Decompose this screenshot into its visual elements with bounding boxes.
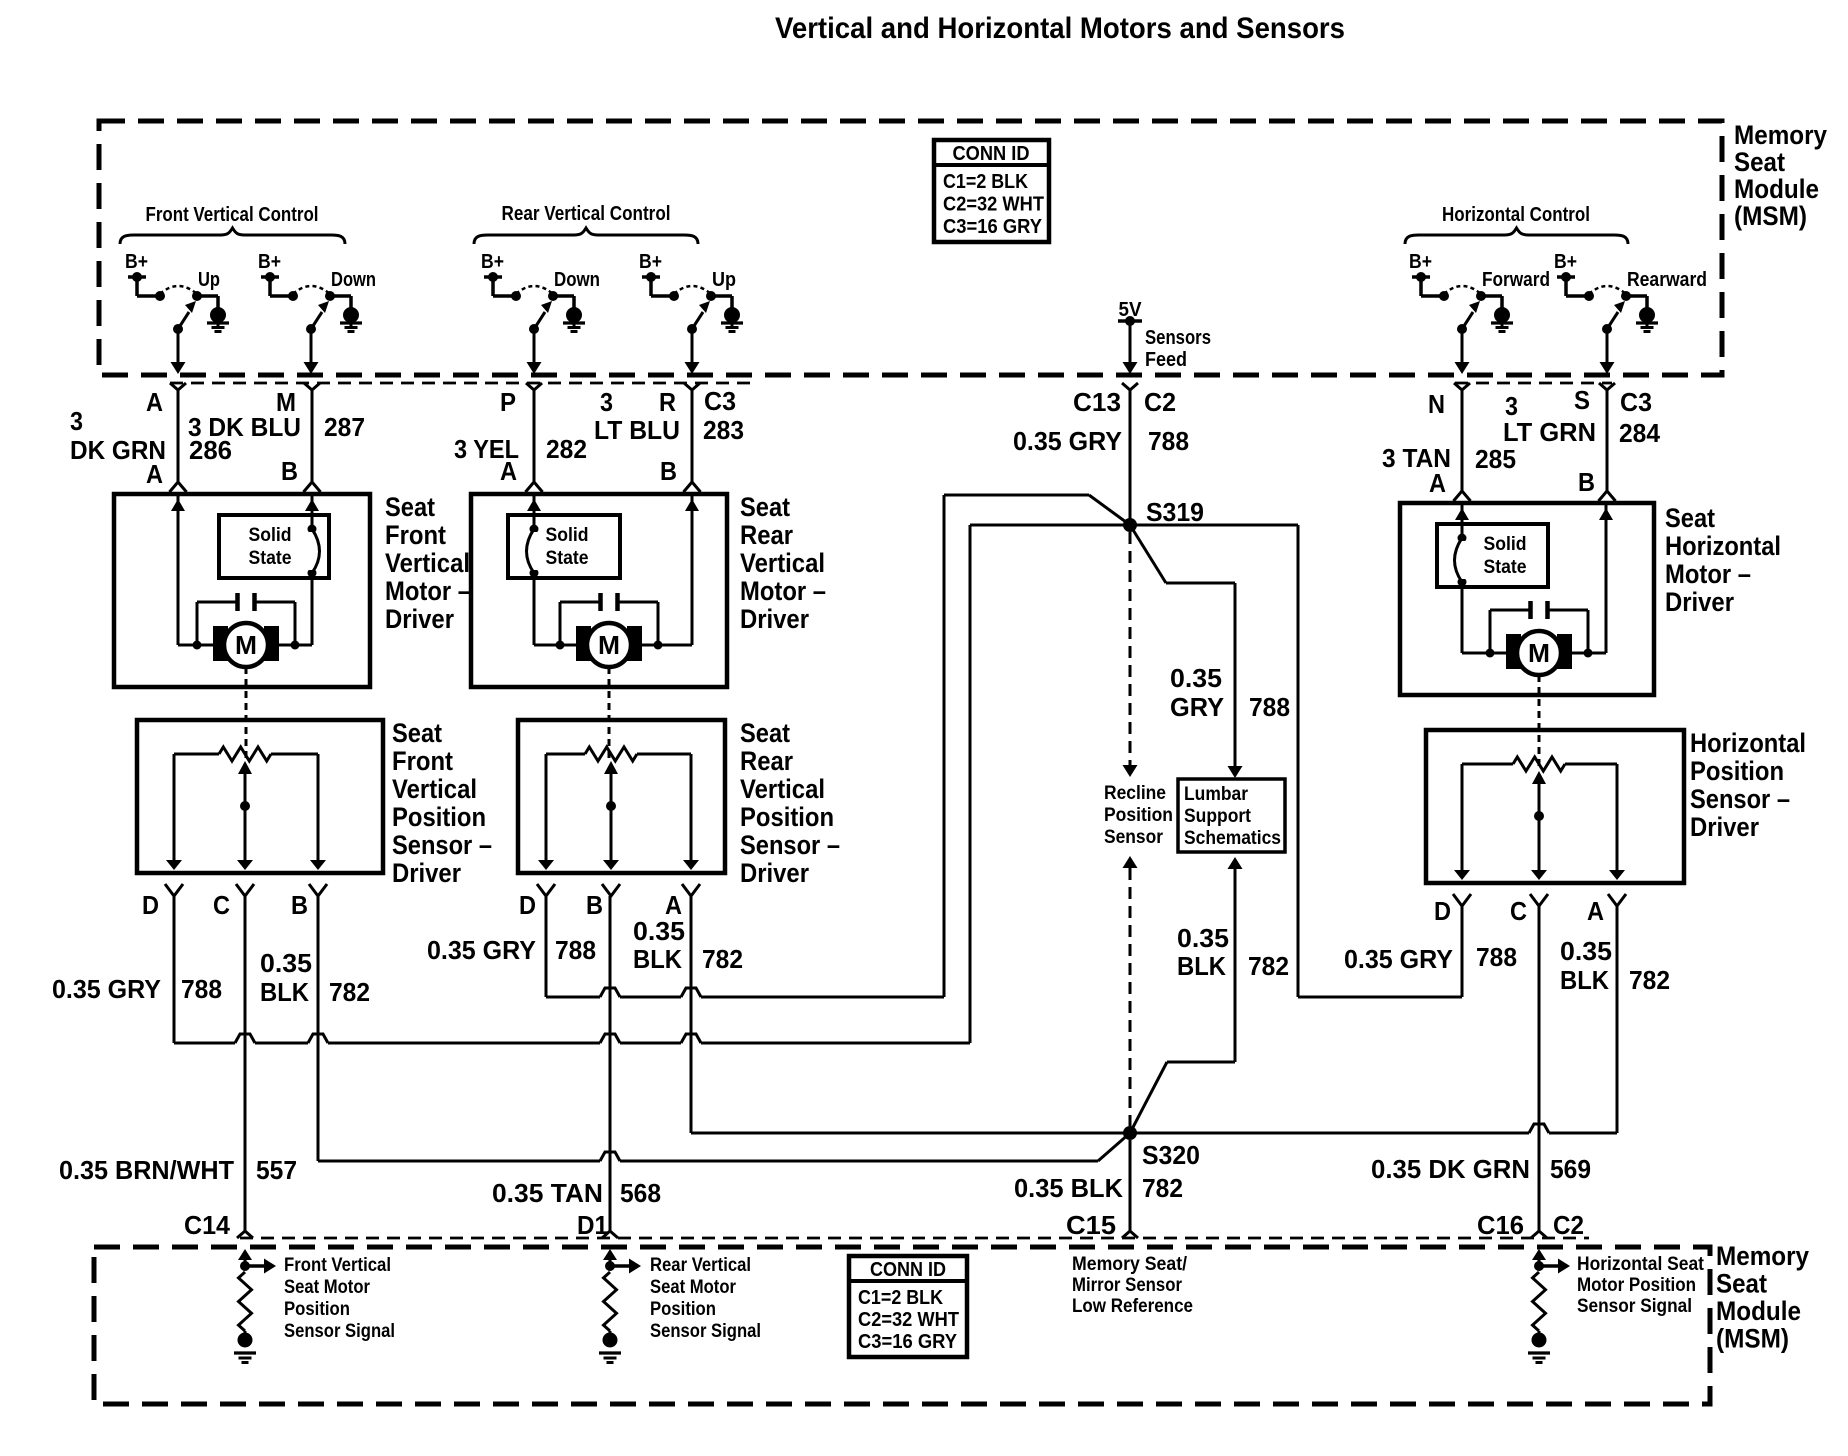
svg-text:286: 286: [189, 435, 232, 465]
svg-text:Driver: Driver: [740, 858, 809, 888]
svg-text:CONN ID: CONN ID: [870, 1259, 946, 1281]
svg-text:782: 782: [329, 977, 370, 1007]
svg-text:Position: Position: [284, 1299, 350, 1320]
svg-text:0.35 GRY: 0.35 GRY: [52, 974, 161, 1004]
svg-text:B+: B+: [481, 251, 504, 273]
svg-text:Front: Front: [392, 746, 453, 776]
svg-text:State: State: [249, 548, 292, 569]
svg-text:Sensor: Sensor: [1104, 827, 1164, 848]
svg-text:Low Reference: Low Reference: [1072, 1296, 1193, 1317]
svg-text:B+: B+: [258, 251, 281, 273]
svg-text:Rearward: Rearward: [1627, 269, 1707, 291]
svg-text:LT GRN: LT GRN: [1503, 417, 1596, 447]
svg-text:284: 284: [1619, 418, 1661, 448]
svg-text:Seat: Seat: [740, 718, 790, 748]
svg-text:Seat: Seat: [740, 492, 790, 522]
svg-text:Horizontal: Horizontal: [1690, 728, 1806, 758]
svg-text:Driver: Driver: [392, 858, 461, 888]
svg-text:Motor –: Motor –: [385, 576, 471, 606]
svg-text:788: 788: [1249, 692, 1290, 722]
svg-text:788: 788: [1476, 942, 1517, 972]
svg-text:State: State: [1484, 557, 1527, 578]
svg-text:788: 788: [555, 935, 596, 965]
svg-text:Forward: Forward: [1482, 269, 1550, 291]
svg-text:Motor Position: Motor Position: [1577, 1275, 1696, 1296]
svg-text:Motor –: Motor –: [740, 576, 826, 606]
svg-text:3: 3: [70, 406, 83, 436]
svg-text:0.35 TAN: 0.35 TAN: [492, 1178, 603, 1208]
svg-text:0.35: 0.35: [1177, 923, 1229, 953]
svg-text:B: B: [660, 456, 677, 486]
svg-text:Seat: Seat: [1734, 147, 1785, 177]
svg-text:0.35 GRY: 0.35 GRY: [427, 935, 536, 965]
svg-text:A: A: [1587, 896, 1604, 926]
svg-text:C: C: [1510, 896, 1527, 926]
svg-text:Vertical and Horizontal Motors: Vertical and Horizontal Motors and Senso…: [775, 12, 1345, 45]
svg-text:0.35: 0.35: [1560, 936, 1612, 966]
svg-text:C1=2 BLK: C1=2 BLK: [858, 1287, 943, 1309]
svg-text:Memory: Memory: [1716, 1241, 1809, 1271]
svg-text:CONN ID: CONN ID: [953, 143, 1030, 165]
svg-text:BLK: BLK: [260, 977, 309, 1007]
svg-text:C16: C16: [1477, 1210, 1524, 1240]
svg-text:Recline: Recline: [1104, 783, 1166, 804]
svg-text:Driver: Driver: [385, 604, 454, 634]
svg-text:569: 569: [1550, 1154, 1591, 1184]
svg-text:Lumbar: Lumbar: [1184, 784, 1249, 805]
svg-text:Memory Seat/: Memory Seat/: [1072, 1254, 1188, 1275]
svg-text:Sensor Signal: Sensor Signal: [1577, 1296, 1692, 1317]
svg-text:Horizontal Control: Horizontal Control: [1442, 204, 1590, 226]
svg-text:BLK: BLK: [633, 944, 682, 974]
svg-text:B: B: [586, 890, 603, 920]
svg-text:Rear Vertical: Rear Vertical: [650, 1255, 751, 1276]
svg-text:C2: C2: [1553, 1210, 1584, 1240]
svg-text:A: A: [500, 456, 517, 486]
svg-text:C13: C13: [1073, 387, 1121, 417]
svg-text:788: 788: [181, 974, 222, 1004]
svg-text:0.35 GRY: 0.35 GRY: [1013, 426, 1122, 456]
svg-text:Horizontal: Horizontal: [1665, 531, 1781, 561]
svg-text:B+: B+: [639, 251, 662, 273]
svg-text:M: M: [235, 630, 257, 660]
svg-text:A: A: [1429, 468, 1446, 498]
svg-text:C2: C2: [1144, 387, 1176, 417]
svg-text:0.35: 0.35: [1170, 663, 1222, 693]
svg-text:Vertical: Vertical: [385, 548, 470, 578]
svg-text:R: R: [659, 387, 676, 417]
svg-text:782: 782: [1629, 965, 1670, 995]
svg-text:B: B: [281, 456, 298, 486]
svg-text:A: A: [146, 387, 163, 417]
svg-text:Solid: Solid: [546, 525, 589, 546]
svg-text:Sensor –: Sensor –: [1690, 784, 1790, 814]
svg-text:B+: B+: [1554, 251, 1577, 273]
svg-text:Rear Vertical Control: Rear Vertical Control: [502, 203, 671, 225]
svg-text:S319: S319: [1146, 497, 1204, 527]
svg-text:C2=32 WHT: C2=32 WHT: [943, 194, 1044, 216]
svg-text:Front Vertical Control: Front Vertical Control: [146, 204, 319, 226]
svg-text:State: State: [546, 548, 589, 569]
svg-text:Mirror Sensor: Mirror Sensor: [1072, 1275, 1183, 1296]
svg-text:Driver: Driver: [1665, 587, 1734, 617]
svg-text:Up: Up: [198, 269, 220, 291]
svg-text:BLK: BLK: [1177, 951, 1226, 981]
svg-text:P: P: [500, 387, 516, 417]
svg-text:Position: Position: [1690, 756, 1784, 786]
svg-text:282: 282: [546, 434, 587, 464]
svg-text:0.35 BRN/WHT: 0.35 BRN/WHT: [59, 1155, 234, 1185]
svg-text:Vertical: Vertical: [392, 774, 477, 804]
svg-text:Position: Position: [740, 802, 834, 832]
svg-text:Position: Position: [650, 1299, 716, 1320]
svg-text:Module: Module: [1716, 1296, 1801, 1326]
svg-text:A: A: [146, 459, 163, 489]
svg-text:D: D: [519, 890, 536, 920]
svg-text:Vertical: Vertical: [740, 548, 825, 578]
svg-text:C2=32 WHT: C2=32 WHT: [858, 1309, 959, 1331]
svg-text:Seat Motor: Seat Motor: [284, 1277, 371, 1298]
svg-text:C1=2 BLK: C1=2 BLK: [943, 171, 1028, 193]
svg-text:Sensor Signal: Sensor Signal: [650, 1321, 761, 1342]
svg-text:Rear: Rear: [740, 520, 793, 550]
svg-text:C15: C15: [1066, 1210, 1116, 1240]
svg-text:Schematics: Schematics: [1184, 828, 1281, 849]
svg-text:Motor –: Motor –: [1665, 559, 1751, 589]
svg-text:Seat: Seat: [1716, 1269, 1767, 1299]
svg-text:Front Vertical: Front Vertical: [284, 1255, 391, 1276]
svg-text:Sensor Signal: Sensor Signal: [284, 1321, 395, 1342]
svg-text:Front: Front: [385, 520, 446, 550]
svg-text:Vertical: Vertical: [740, 774, 825, 804]
svg-text:C3: C3: [704, 386, 736, 416]
svg-text:788: 788: [1148, 426, 1189, 456]
svg-text:C3=16 GRY: C3=16 GRY: [943, 216, 1043, 238]
svg-text:Sensors: Sensors: [1145, 327, 1211, 349]
svg-text:Position: Position: [1104, 805, 1173, 826]
svg-text:283: 283: [703, 415, 744, 445]
svg-text:B: B: [291, 890, 308, 920]
svg-text:557: 557: [256, 1155, 297, 1185]
svg-text:Seat: Seat: [1665, 503, 1715, 533]
svg-text:C3=16 GRY: C3=16 GRY: [858, 1331, 958, 1353]
svg-text:Memory: Memory: [1734, 120, 1827, 150]
svg-text:B+: B+: [1409, 251, 1432, 273]
svg-text:S: S: [1574, 385, 1590, 415]
svg-text:Solid: Solid: [1484, 534, 1527, 555]
svg-text:S320: S320: [1142, 1140, 1200, 1170]
svg-text:C: C: [213, 890, 230, 920]
svg-text:LT BLU: LT BLU: [594, 415, 680, 445]
svg-text:Down: Down: [331, 269, 376, 291]
svg-text:Driver: Driver: [1690, 812, 1759, 842]
svg-text:Seat Motor: Seat Motor: [650, 1277, 737, 1298]
svg-text:Sensor –: Sensor –: [392, 830, 492, 860]
svg-text:D: D: [142, 890, 159, 920]
svg-text:3: 3: [600, 387, 613, 417]
svg-text:B+: B+: [125, 251, 148, 273]
svg-text:0.35: 0.35: [260, 948, 312, 978]
svg-text:M: M: [1528, 638, 1550, 668]
svg-text:C3: C3: [1620, 387, 1652, 417]
svg-text:Position: Position: [392, 802, 486, 832]
svg-text:(MSM): (MSM): [1734, 201, 1807, 231]
svg-text:GRY: GRY: [1170, 692, 1224, 722]
svg-text:Seat: Seat: [392, 718, 442, 748]
svg-text:Horizontal Seat: Horizontal Seat: [1577, 1254, 1705, 1275]
svg-text:287: 287: [324, 412, 365, 442]
svg-text:Module: Module: [1734, 174, 1819, 204]
svg-text:D: D: [1434, 896, 1451, 926]
svg-text:Support: Support: [1184, 806, 1252, 827]
svg-text:C14: C14: [184, 1210, 231, 1240]
svg-text:0.35 GRY: 0.35 GRY: [1344, 944, 1453, 974]
svg-text:Feed: Feed: [1145, 349, 1187, 371]
svg-text:Seat: Seat: [385, 492, 435, 522]
svg-text:782: 782: [1142, 1173, 1183, 1203]
svg-text:Up: Up: [712, 269, 736, 291]
svg-text:568: 568: [620, 1178, 661, 1208]
svg-text:Down: Down: [554, 269, 600, 291]
svg-text:N: N: [1428, 389, 1445, 419]
svg-text:782: 782: [702, 944, 743, 974]
svg-text:0.35 DK GRN: 0.35 DK GRN: [1371, 1154, 1530, 1184]
svg-text:Driver: Driver: [740, 604, 809, 634]
svg-text:M: M: [598, 630, 620, 660]
svg-text:0.35: 0.35: [633, 916, 685, 946]
svg-text:Solid: Solid: [249, 525, 292, 546]
svg-text:0.35 BLK: 0.35 BLK: [1014, 1173, 1123, 1203]
svg-text:Rear: Rear: [740, 746, 793, 776]
svg-text:285: 285: [1475, 444, 1516, 474]
svg-text:B: B: [1578, 467, 1595, 497]
svg-text:782: 782: [1248, 951, 1289, 981]
svg-text:BLK: BLK: [1560, 965, 1609, 995]
svg-text:(MSM): (MSM): [1716, 1324, 1789, 1354]
svg-text:Sensor –: Sensor –: [740, 830, 840, 860]
